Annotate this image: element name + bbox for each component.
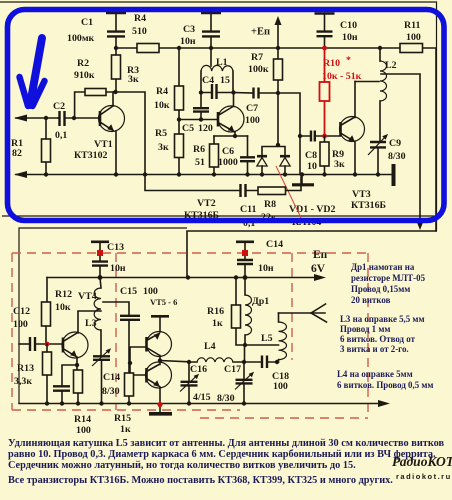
frame line above blue band [2, 215, 436, 217]
svg-text:100: 100 [13, 319, 28, 330]
junction node [298, 134, 302, 138]
svg-text:C16: C16 [190, 364, 207, 375]
node: antenna arrow top [14, 115, 27, 122]
junction node [275, 360, 279, 364]
wire: bus drop into bottom section [186, 275, 190, 279]
resistor R9 [320, 136, 345, 175]
svg-text:R5: R5 [155, 128, 167, 139]
svg-text:C7: C7 [246, 103, 258, 114]
antenna symbol [279, 304, 327, 322]
svg-text:82: 82 [12, 148, 22, 159]
capacitor C14 top [236, 239, 283, 278]
red dashed bottom left [12, 409, 240, 411]
svg-text:R12: R12 [55, 289, 72, 300]
junction node [44, 172, 48, 176]
svg-text:VT3: VT3 [352, 189, 371, 200]
junction node [199, 117, 203, 121]
junction node [60, 401, 64, 405]
svg-text:R10: R10 [323, 58, 340, 69]
capacitor C10 [315, 14, 358, 49]
capacitor C18 [262, 356, 289, 393]
wire: ground rail y=174.5 [16, 174, 393, 176]
svg-text:100: 100 [245, 115, 260, 126]
junction node [212, 172, 216, 176]
svg-text:C10: C10 [340, 20, 357, 31]
svg-text:VT5 - 6: VT5 - 6 [150, 297, 177, 307]
svg-text:Др1: Др1 [252, 296, 269, 307]
svg-text:20 витков: 20 витков [351, 295, 391, 305]
wire: bases link [130, 347, 147, 375]
svg-text:R11: R11 [404, 20, 421, 31]
svg-text:10н: 10н [342, 32, 358, 43]
svg-text:R7: R7 [251, 52, 263, 63]
junction node [276, 91, 280, 95]
svg-text:C12: C12 [13, 306, 30, 317]
svg-text:10н: 10н [180, 36, 196, 47]
power +Ep arrow [251, 16, 282, 48]
wire: bottom supply line y=277.5 [47, 277, 318, 279]
svg-text:L2: L2 [385, 60, 397, 71]
red dashed vertical mid2 [291, 253, 293, 360]
node: output arrow onto bus [416, 221, 423, 230]
svg-text:510: 510 [132, 26, 147, 37]
junction node [283, 172, 287, 176]
wire: coupling bus y=231 to bottom section [187, 231, 436, 278]
svg-text:+Еп: +Еп [251, 27, 270, 38]
junction node [114, 46, 118, 50]
junction node [45, 342, 50, 347]
resistor R16 [207, 278, 245, 346]
junction node [187, 401, 191, 405]
svg-text:1000: 1000 [218, 157, 238, 168]
svg-text:10н: 10н [110, 263, 126, 274]
svg-text:Др1 намотан на: Др1 намотан на [351, 262, 415, 272]
svg-text:L4: L4 [204, 341, 216, 352]
svg-text:резисторе МЛТ-05: резисторе МЛТ-05 [351, 273, 426, 283]
svg-text:C9: C9 [389, 138, 401, 149]
wire: antenna input top y=118 [16, 117, 58, 119]
resistor R14 [74, 365, 92, 436]
svg-text:910к: 910к [74, 70, 95, 81]
svg-text:100: 100 [273, 381, 288, 392]
svg-text:L3 на оправке 5,5 мм: L3 на оправке 5,5 мм [340, 314, 425, 324]
inductor L1 [201, 57, 233, 93]
svg-text:6 витков. Отвод от: 6 витков. Отвод от [340, 334, 416, 344]
resistor R11 [400, 20, 423, 53]
svg-text:VT2: VT2 [197, 198, 216, 209]
junction node [322, 172, 326, 176]
blue annotation arrow [20, 38, 45, 106]
junction node [97, 250, 103, 256]
svg-text:C3: C3 [183, 24, 195, 35]
svg-text:C4: C4 [202, 75, 214, 86]
resistor R3 [112, 48, 140, 92]
svg-text:C8: C8 [305, 150, 317, 161]
resistor R1 [11, 118, 51, 175]
capacitor C13 [91, 242, 126, 278]
svg-text:Провод 1 мм: Провод 1 мм [340, 324, 390, 334]
svg-text:равно 10. Провод 0,3. Диаметр: равно 10. Провод 0,3. Диаметр каркаса 6 … [8, 449, 436, 460]
wire: varicap bias branch C11 R8 [145, 175, 301, 191]
junction node [233, 134, 237, 138]
junction node [245, 172, 249, 176]
annotation L4 [337, 369, 433, 390]
ground symbol VT6 emitter [149, 404, 172, 414]
junction node [243, 275, 248, 280]
capacitor C8 [300, 131, 341, 173]
svg-text:C14: C14 [266, 239, 283, 250]
red dashed box left [11, 253, 13, 410]
node: antenna arrow bottom [14, 171, 27, 178]
junction node [199, 90, 203, 94]
wire: L2 tap output [381, 74, 420, 224]
svg-text:*: * [346, 55, 351, 66]
transistor VT5 [147, 297, 178, 361]
svg-text:VT1: VT1 [94, 139, 113, 150]
ground chassis bar right end of rail [392, 164, 396, 186]
junction node collector VT1 [113, 90, 117, 94]
svg-text:C2: C2 [53, 101, 65, 112]
svg-text:3к: 3к [158, 142, 169, 153]
svg-text:15: 15 [220, 75, 230, 86]
junction node [260, 172, 264, 176]
label VD1-VD2 [289, 204, 336, 228]
transistor VT4 [62, 291, 101, 365]
wire: rail to L1 centre [210, 48, 212, 66]
svg-text:100: 100 [76, 425, 91, 436]
resistor R4 10k [154, 48, 184, 120]
transistor VT1 [74, 92, 125, 175]
wire: L3 tap to C15 [103, 302, 129, 316]
junction node [353, 172, 357, 176]
svg-text:100: 100 [406, 32, 421, 43]
junction node [98, 275, 103, 280]
junction node [209, 46, 213, 50]
svg-text:R16: R16 [207, 306, 224, 317]
junction node [276, 143, 280, 147]
capacitor C3 [180, 13, 221, 48]
junction node [242, 360, 246, 364]
svg-text:R4: R4 [134, 13, 146, 24]
capacitor C1 [67, 13, 126, 48]
inductor L2 [380, 48, 397, 141]
emitter bypass capacitor [53, 365, 77, 404]
svg-text:120: 120 [198, 123, 213, 134]
junction node [276, 46, 280, 50]
svg-text:R13: R13 [17, 363, 34, 374]
svg-text:КТ316Б: КТ316Б [351, 200, 387, 211]
watermark [392, 454, 452, 481]
transistor VT3 [340, 82, 387, 212]
capacitor C9 variable [368, 134, 406, 175]
wire: bottom ground rail [19, 403, 382, 405]
junction node [231, 90, 235, 94]
svg-text:C6: C6 [222, 146, 234, 157]
capacitor C6 [218, 136, 255, 175]
junction node [157, 402, 162, 407]
junction node [300, 172, 304, 176]
ground symbol below rail [292, 175, 314, 185]
wire: to L5 tap and down [245, 345, 279, 362]
resistor R12 [42, 278, 73, 345]
wire: R7 node down to varicaps [262, 93, 300, 175]
top schematic frame [0, 2, 437, 231]
junction node [242, 401, 246, 405]
capacitor C12 [13, 306, 63, 351]
junction node [76, 401, 80, 405]
svg-text:0,1: 0,1 [55, 130, 67, 141]
capacitor C2 [53, 101, 100, 141]
svg-text:100: 100 [143, 286, 158, 297]
resistor R6 [193, 136, 219, 175]
svg-text:Провод 0,15мм: Провод 0,15мм [351, 284, 410, 294]
svg-text:6 витков. Провод 0,5 мм: 6 витков. Провод 0,5 мм [337, 380, 433, 390]
resistor R15 [114, 363, 134, 435]
bottom schematic frame left/top [19, 228, 187, 404]
capacitor C17 variable [217, 362, 254, 404]
svg-text:3 витка и от 2-го.: 3 витка и от 2-го. [340, 344, 409, 354]
junction node [44, 116, 48, 120]
svg-text:Все транзисторы КТ316Б. Можно: Все транзисторы КТ316Б. Можно поставить … [8, 475, 393, 486]
capacitor C14 variable lower [92, 330, 120, 404]
junction node [378, 46, 382, 50]
svg-text:3,3к: 3,3к [14, 376, 32, 387]
resistor R8 [258, 187, 286, 223]
choke Dr1 [245, 278, 269, 346]
svg-text:10к: 10к [55, 302, 71, 313]
svg-text:R14: R14 [74, 414, 91, 425]
wire: collector bypass to ground [116, 92, 146, 175]
svg-text:Сердечник можно латунный, но т: Сердечник можно латунный, но тогда колич… [8, 460, 356, 471]
svg-text:Еп: Еп [313, 249, 328, 261]
capacitor C15 [120, 286, 158, 363]
red pointer line [276, 166, 303, 222]
svg-text:radiokot.ru: radiokot.ru [396, 472, 452, 481]
annotation Dr1 [351, 262, 426, 305]
svg-text:10к - 51к: 10к - 51к [322, 71, 362, 82]
blue highlight border [8, 10, 445, 221]
node: rail end arrow [378, 400, 390, 407]
svg-text:C13: C13 [107, 242, 124, 253]
svg-text:L5: L5 [261, 333, 273, 344]
junction node [72, 116, 76, 120]
svg-text:100к: 100к [248, 64, 269, 75]
svg-text:C5: C5 [182, 123, 194, 134]
junction node [128, 361, 132, 365]
junction node [99, 401, 103, 405]
capacitor C16 variable [180, 362, 211, 404]
inductor L4 [197, 341, 233, 362]
svg-text:8/30: 8/30 [102, 386, 120, 397]
resistor R10 red [320, 48, 362, 136]
svg-text:10к: 10к [154, 100, 170, 111]
transistor VT2 [184, 93, 244, 222]
svg-text:C17: C17 [224, 364, 241, 375]
svg-text:VD1 - VD2: VD1 - VD2 [289, 204, 336, 215]
wire: VT2 emitter node [214, 135, 248, 137]
svg-text:6V: 6V [311, 263, 326, 275]
transistor VT6 [146, 361, 172, 404]
power arrow Ep 6V [314, 274, 326, 281]
red dashed box top [12, 252, 368, 254]
svg-text:1к: 1к [120, 424, 131, 435]
junction node [75, 363, 79, 367]
svg-text:C1: C1 [81, 17, 93, 28]
svg-text:100мк: 100мк [67, 33, 95, 44]
junction node [376, 172, 380, 176]
svg-text:L1: L1 [216, 57, 228, 68]
junction node [322, 46, 327, 51]
svg-text:8/30: 8/30 [388, 151, 406, 162]
resistor R4 510 [132, 13, 159, 53]
resistor R7 [248, 48, 283, 93]
junction node [45, 401, 49, 405]
varicap VD2 [280, 156, 290, 174]
junction node [127, 401, 131, 405]
red dashed right [367, 253, 369, 418]
svg-text:R15: R15 [114, 413, 131, 424]
junction node [177, 117, 181, 121]
svg-text:3к: 3к [334, 159, 345, 170]
inductor L3 [85, 278, 101, 331]
svg-text:10: 10 [307, 161, 317, 172]
svg-text:КТ3102: КТ3102 [74, 150, 108, 161]
svg-text:10н: 10н [258, 263, 274, 274]
junction node [177, 46, 181, 50]
wire: +Ep rail y=48 [116, 48, 436, 231]
resistor R13 [14, 344, 52, 404]
inductor L5 [261, 313, 287, 362]
svg-text:1к: 1к [212, 318, 223, 329]
junction node [242, 250, 248, 256]
svg-text:8/30: 8/30 [217, 393, 235, 404]
svg-text:Удлиняющая катушка L5 зависит: Удлиняющая катушка L5 зависит от антенны… [8, 438, 445, 449]
svg-text:R2: R2 [77, 58, 89, 69]
capacitor C4 [201, 75, 233, 99]
svg-text:R6: R6 [193, 144, 205, 155]
svg-text:R8: R8 [264, 199, 276, 210]
svg-text:C11: C11 [240, 204, 257, 215]
svg-text:C14: C14 [103, 372, 120, 383]
junction node [187, 360, 191, 364]
junction node [114, 172, 118, 176]
junction node [158, 358, 162, 362]
junction node [243, 343, 247, 347]
bottom paragraph [8, 438, 445, 486]
svg-text:51: 51 [195, 157, 205, 168]
junction node [234, 275, 238, 279]
resistor R5 [155, 120, 184, 175]
resistor R2 [74, 58, 116, 118]
red dashed bottom right [200, 417, 368, 419]
svg-text:R4: R4 [156, 86, 168, 97]
svg-text:L4 на оправке 5мм: L4 на оправке 5мм [337, 369, 413, 379]
svg-text:РадиоКОТ: РадиоКОТ [392, 454, 452, 469]
capacitor C11 [240, 184, 257, 229]
svg-text:L3: L3 [85, 318, 97, 329]
svg-text:C15: C15 [120, 286, 137, 297]
svg-text:4/15: 4/15 [193, 392, 211, 403]
wire: output line y=362 [160, 361, 277, 363]
wire: base line VT2 [179, 119, 218, 121]
varicap VD1 [257, 156, 267, 174]
red dashed vertical mid1 [115, 253, 117, 410]
capacitor C5 [182, 93, 213, 135]
junction node [322, 134, 327, 139]
junction node [177, 172, 181, 176]
svg-text:3к: 3к [128, 74, 139, 85]
wire: VT3 collector to L2 tap [355, 81, 379, 83]
annotation L3 [340, 314, 425, 354]
capacitor C7 [234, 88, 279, 127]
junction node [143, 172, 147, 176]
